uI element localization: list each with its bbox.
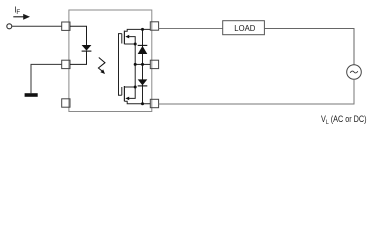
diode D2 (upper, pointing up) (138, 45, 148, 54)
Q2 body arrow (125, 87, 135, 100)
transistor Q2 gate (121, 87, 123, 95)
IF label (14, 6, 20, 17)
junction dots (134, 28, 144, 105)
input bar terminal (25, 93, 38, 97)
Q1 drain lead (124, 29, 150, 31)
Q2 source stub (124, 86, 135, 88)
transistor Q1 gate (121, 34, 123, 44)
wire: terminal to pin1 (12, 25, 62, 27)
pin 2 (62, 60, 70, 68)
input terminal (open circle) (7, 24, 12, 29)
source bus (134, 44, 136, 87)
middle stub to pin5 (135, 63, 150, 65)
LED D1 (82, 45, 92, 51)
wire: pin1 to LED anode (70, 26, 87, 45)
pin 1 (62, 22, 70, 30)
Q1 source stub (124, 43, 135, 45)
wire: pin6 to LOAD (159, 28, 223, 30)
VL label (321, 113, 367, 126)
diode D3 (lower, pointing down) (138, 79, 148, 86)
wire: source down and back to pin4 (159, 79, 354, 104)
transistor Q1 channel (123, 31, 125, 45)
AC source V (347, 65, 362, 80)
svg-text:F: F (16, 9, 20, 16)
pin 5 (150, 60, 158, 68)
wire: LOAD to top-right corner, down to source (264, 29, 354, 65)
wire: pin2 to input bar (31, 64, 62, 93)
photon arrow (98, 58, 105, 75)
package outline (69, 10, 152, 112)
pin 4 (150, 99, 158, 107)
pin 6 (150, 22, 158, 30)
IF arrow (13, 14, 30, 20)
svg-text:VL (AC or DC): VL (AC or DC) (321, 113, 367, 126)
LOAD box (223, 21, 265, 35)
Q1 body arrow (125, 35, 135, 44)
gate bus (119, 34, 122, 96)
svg-text:LOAD: LOAD (234, 23, 255, 33)
Q2 drain lead (124, 101, 150, 103)
wire: LED cathode to pin2 (70, 51, 87, 64)
body-diode line (142, 29, 144, 103)
pin 3 (62, 99, 70, 107)
transistor Q2 channel (123, 86, 125, 101)
